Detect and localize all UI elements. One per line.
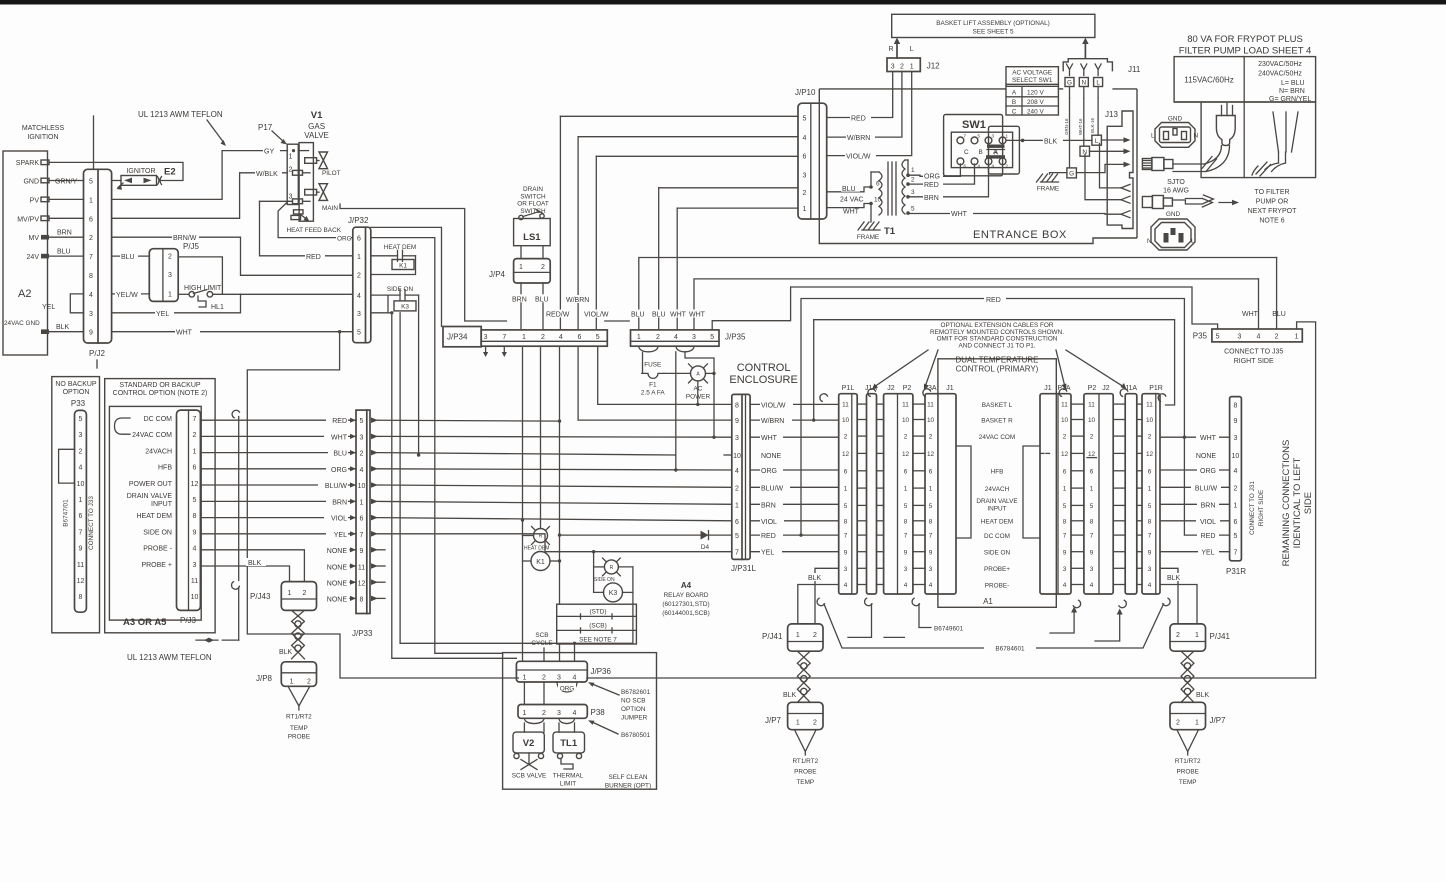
wire VIOL/W: [596, 155, 798, 157]
svg-text:5: 5: [79, 416, 83, 423]
svg-text:L: L: [910, 46, 914, 53]
svg-text:NO SCB: NO SCB: [621, 698, 646, 705]
wire valve pin3 to ORG row (J/P32 pin6): [278, 201, 353, 237]
svg-text:VIOL: VIOL: [1200, 519, 1216, 526]
connector P38: [523, 682, 525, 705]
svg-text:2: 2: [193, 432, 197, 439]
svg-text:INPUT: INPUT: [151, 501, 173, 508]
svg-text:BURNER (OPT): BURNER (OPT): [605, 783, 651, 790]
svg-text:DRAIN VALVE: DRAIN VALVE: [976, 498, 1017, 505]
svg-text:8: 8: [844, 518, 848, 525]
wire labels: [326, 416, 348, 424]
svg-text:1: 1: [910, 64, 914, 71]
svg-text:J1: J1: [1044, 385, 1052, 392]
svg-text:3: 3: [929, 566, 933, 573]
svg-text:8: 8: [89, 273, 93, 280]
svg-text:11: 11: [842, 402, 849, 409]
svg-text:24VAC COM: 24VAC COM: [132, 432, 172, 439]
svg-text:PROBE -: PROBE -: [143, 546, 172, 553]
svg-text:11: 11: [191, 578, 198, 585]
svg-text:8: 8: [929, 518, 933, 525]
wire P/J2 pin6 (MV/PV) to valve pin 2 (W/BLK): [112, 173, 288, 219]
115V plug: [1221, 106, 1223, 116]
svg-text:7: 7: [1090, 533, 1094, 540]
svg-text:5: 5: [360, 418, 364, 425]
svg-text:PROBE: PROBE: [288, 734, 310, 741]
svg-text:8: 8: [904, 518, 908, 525]
svg-text:P1R: P1R: [1149, 385, 1163, 392]
boxed L N G wire tags: [1097, 98, 1099, 135]
svg-text:24VAC COM: 24VAC COM: [979, 434, 1015, 441]
svg-text:24V: 24V: [27, 254, 40, 261]
wires P/J3 to J/P33: [200, 419, 356, 421]
svg-text:YEL: YEL: [156, 311, 169, 318]
svg-text:GAS: GAS: [308, 122, 325, 131]
svg-text:RED: RED: [761, 533, 776, 540]
probe wires to P/J43: [200, 550, 304, 582]
svg-text:8: 8: [193, 513, 197, 520]
wire BRN T1 to SW1: [908, 164, 989, 197]
svg-text:SELF CLEAN: SELF CLEAN: [608, 774, 647, 781]
entrance box outline: [819, 88, 1006, 90]
svg-text:P2: P2: [903, 385, 912, 392]
svg-text:OPTION: OPTION: [621, 706, 646, 713]
wire J/P32 top to J/P34 label box: [371, 227, 442, 326]
svg-text:GRN-16: GRN-16: [1064, 118, 1069, 135]
twisted pair right: [1181, 651, 1194, 702]
row link ticks between connector columns: [857, 403, 866, 405]
svg-text:1: 1: [360, 499, 364, 506]
A2 terminal MV/PV: [41, 216, 49, 221]
AC voltage select table: [1006, 67, 1058, 115]
svg-text:F1: F1: [649, 382, 657, 389]
wire WHT T1 to J13: [908, 213, 1121, 216]
svg-text:2: 2: [307, 679, 311, 686]
svg-text:5: 5: [929, 503, 933, 510]
svg-text:6: 6: [803, 154, 807, 161]
svg-text:LIMIT: LIMIT: [560, 781, 576, 788]
svg-text:GY: GY: [264, 149, 274, 156]
svg-text:YEL: YEL: [761, 550, 774, 557]
svg-text:8: 8: [79, 594, 83, 601]
wire K3 contact down to BLU row: [418, 295, 420, 455]
svg-text:BRN: BRN: [332, 499, 347, 506]
wire W/BRN: [578, 136, 798, 138]
svg-text:TEMP: TEMP: [796, 779, 814, 786]
svg-text:BLU: BLU: [333, 451, 347, 458]
svg-text:WHT: WHT: [843, 209, 860, 216]
svg-text:2: 2: [813, 632, 817, 639]
svg-text:LS1: LS1: [523, 232, 541, 243]
svg-text:BLK: BLK: [1196, 692, 1210, 699]
svg-text:IDENTICAL TO LEFT: IDENTICAL TO LEFT: [1292, 457, 1303, 548]
svg-text:NONE: NONE: [327, 581, 348, 588]
svg-text:1: 1: [1148, 486, 1152, 493]
svg-text:2: 2: [1233, 485, 1237, 492]
ORG jumper loop: [557, 682, 577, 692]
svg-text:5: 5: [357, 330, 361, 337]
svg-text:5: 5: [1233, 533, 1237, 540]
svg-text:9: 9: [904, 549, 908, 556]
svg-text:MATCHLESS: MATCHLESS: [22, 125, 65, 132]
svg-text:BLU: BLU: [842, 186, 856, 193]
svg-text:6: 6: [1148, 468, 1152, 475]
wire PV: [49, 198, 84, 200]
svg-text:WHT: WHT: [689, 312, 706, 319]
svg-text:BLK: BLK: [1167, 575, 1181, 582]
svg-text:B6747/01: B6747/01: [63, 499, 70, 527]
svg-text:3: 3: [1233, 435, 1237, 442]
svg-text:SCB VALVE: SCB VALVE: [512, 773, 547, 780]
svg-text:ENTRANCE BOX: ENTRANCE BOX: [973, 229, 1067, 241]
standard or backup control box: [105, 379, 215, 633]
svg-text:B6780501: B6780501: [621, 732, 651, 739]
svg-text:4: 4: [1257, 334, 1261, 341]
svg-text:UL 1213 AWM TEFLON: UL 1213 AWM TEFLON: [127, 653, 212, 662]
svg-text:RT1/RT2: RT1/RT2: [792, 758, 818, 765]
svg-text:7: 7: [193, 416, 197, 423]
svg-text:4: 4: [904, 582, 908, 589]
connector P33: [75, 410, 87, 612]
svg-text:STANDARD OR BACKUP: STANDARD OR BACKUP: [119, 382, 200, 389]
callout B6780501: [591, 722, 618, 735]
wire VIOL/W J/P34 pin5 to J/P31L pin8: [598, 346, 732, 404]
svg-text:BRN: BRN: [924, 195, 939, 202]
wire BLU into P35 pin2: [1276, 258, 1278, 330]
svg-text:4: 4: [929, 582, 933, 589]
svg-text:240VAC/50Hz: 240VAC/50Hz: [1258, 71, 1302, 78]
svg-text:P/J41: P/J41: [1210, 632, 1231, 641]
svg-text:PROBE: PROBE: [794, 769, 816, 776]
leader arrows right side: [1050, 611, 1074, 633]
svg-text:HEAT DEM: HEAT DEM: [384, 244, 416, 251]
frame ground at SW1 ground: [1050, 173, 1067, 174]
filter pump cable: [1142, 197, 1152, 208]
svg-text:5: 5: [89, 179, 93, 186]
svg-text:9: 9: [1090, 549, 1094, 556]
svg-text:6: 6: [1233, 519, 1237, 526]
svg-text:J/P10: J/P10: [795, 88, 816, 97]
svg-text:HEAT FEED BACK: HEAT FEED BACK: [287, 227, 342, 234]
probe symbol right: [1177, 730, 1199, 752]
svg-text:NEXT FRYPOT: NEXT FRYPOT: [1248, 208, 1297, 215]
svg-text:POWER OUT: POWER OUT: [129, 481, 173, 488]
wires P1L pins 3,4 to P/J41: [815, 568, 839, 624]
self clean burner box: [503, 653, 657, 790]
connector P31R: [1230, 397, 1242, 561]
svg-text:12: 12: [902, 451, 910, 458]
svg-text:REMAINING CONNECTIONS: REMAINING CONNECTIONS: [1281, 440, 1292, 567]
wire W/BRN J/P34 pin6 to J/P31L pin9: [578, 346, 732, 420]
svg-text:HL1: HL1: [211, 304, 224, 311]
coil K1: [531, 552, 550, 571]
svg-text:WHT: WHT: [1200, 435, 1217, 442]
svg-text:2: 2: [541, 334, 545, 341]
thermal limit TL1: [558, 723, 560, 732]
svg-text:BLK: BLK: [279, 649, 293, 656]
svg-text:1: 1: [929, 486, 933, 493]
twisted pair left: [797, 651, 810, 702]
frame ground below T1 primary: [870, 204, 872, 223]
svg-text:WHT: WHT: [670, 312, 687, 319]
transformer T1: [879, 172, 882, 215]
svg-text:PILOT: PILOT: [322, 170, 341, 177]
svg-text:10: 10: [733, 453, 741, 460]
svg-text:5: 5: [710, 334, 714, 341]
svg-text:6: 6: [360, 516, 364, 523]
svg-text:NOTE 6: NOTE 6: [1259, 218, 1284, 225]
connector J/P36: [516, 661, 587, 682]
connector J/P33: [356, 410, 370, 613]
STD/SCB option box: [557, 604, 637, 644]
svg-text:10: 10: [358, 483, 366, 490]
svg-text:N: N: [1081, 80, 1086, 87]
J/P34 ground stub arrows pins 3,7: [485, 346, 487, 353]
svg-text:10: 10: [1232, 453, 1240, 460]
svg-text:6: 6: [1063, 468, 1067, 475]
svg-text:FRAME: FRAME: [857, 234, 879, 241]
wire GND to P/J2 pin5: [49, 180, 84, 182]
svg-text:JUMPER: JUMPER: [621, 715, 648, 722]
svg-text:120 V: 120 V: [1027, 90, 1044, 97]
svg-text:HFB: HFB: [158, 465, 172, 472]
svg-text:D4: D4: [701, 544, 710, 551]
svg-text:BLU: BLU: [535, 296, 549, 303]
svg-text:10: 10: [1088, 417, 1096, 424]
svg-text:115VAC/60Hz: 115VAC/60Hz: [1184, 76, 1234, 85]
svg-text:9: 9: [735, 418, 739, 425]
svg-text:SELECT SW1: SELECT SW1: [1012, 77, 1053, 84]
svg-text:3: 3: [168, 272, 172, 279]
svg-text:2.5 A FA: 2.5 A FA: [641, 390, 666, 397]
svg-text:W/BRN: W/BRN: [761, 418, 784, 425]
svg-text:HEAT DEM: HEAT DEM: [981, 519, 1013, 526]
connector P/J3: [177, 410, 201, 610]
wire P/J2 pin4 (YEL/W) to P/J5 pin 1: [112, 293, 150, 295]
svg-text:B6782601: B6782601: [621, 689, 651, 696]
cable hooks (bottom): [817, 598, 824, 606]
wire ORG T1 to SW1: [908, 164, 960, 176]
svg-text:PUMP OR: PUMP OR: [1256, 199, 1289, 206]
svg-text:J/P33: J/P33: [352, 629, 373, 638]
svg-text:1: 1: [519, 264, 523, 271]
svg-text:2: 2: [1176, 720, 1180, 727]
connector J/P35: [631, 330, 720, 346]
svg-text:7: 7: [79, 529, 83, 536]
svg-text:1: 1: [522, 334, 526, 341]
svg-text:6: 6: [1090, 468, 1094, 475]
wire P/J2 pin3 (YEL) joins high-limit output: [112, 294, 241, 313]
svg-text:7: 7: [735, 550, 739, 557]
svg-text:RED: RED: [1201, 533, 1216, 540]
svg-text:BLU/W: BLU/W: [761, 485, 784, 492]
svg-text:K3: K3: [401, 304, 409, 311]
wire RED T1 to SW1: [908, 164, 975, 184]
svg-text:K1: K1: [399, 262, 407, 269]
svg-text:24VAC GND: 24VAC GND: [4, 320, 40, 327]
svg-text:1: 1: [735, 502, 739, 509]
arrow J11 to basket lift: [1084, 42, 1086, 58]
svg-text:12: 12: [1146, 451, 1154, 458]
svg-text:YEL: YEL: [1201, 550, 1214, 557]
svg-text:5: 5: [803, 116, 807, 123]
svg-text:BLU: BLU: [631, 312, 645, 319]
svg-text:N= BRN: N= BRN: [1279, 88, 1305, 95]
svg-text:ORG: ORG: [924, 173, 940, 180]
DC COM / 24VAC COM jumper: [115, 418, 131, 434]
A1 dual temperature control board: [938, 359, 1056, 608]
svg-text:1: 1: [522, 675, 526, 682]
svg-text:CONTROL: CONTROL: [737, 362, 791, 374]
svg-text:NONE: NONE: [327, 548, 348, 555]
wire WHT into P35 pin4: [1258, 279, 1260, 329]
pilot solenoid: [305, 158, 317, 164]
svg-text:3: 3: [79, 432, 83, 439]
svg-text:3: 3: [1148, 566, 1152, 573]
wire RED long bus: [801, 299, 1230, 536]
svg-text:BLU: BLU: [57, 248, 71, 255]
svg-text:P38: P38: [591, 708, 606, 717]
P1R to P31R rows: [1160, 436, 1230, 438]
wire P/J2 pin7 (BLU) to P/J5 pin 2: [112, 255, 150, 257]
svg-text:SPARK: SPARK: [16, 160, 40, 167]
A2 terminal 24VAC GND: [41, 329, 49, 334]
wire J/P35 pin5 up to long top bus: [712, 287, 790, 330]
svg-text:8: 8: [1063, 518, 1067, 525]
wire J/P32 pin6 down to self clean box: [371, 238, 503, 654]
svg-text:J/P4: J/P4: [489, 270, 506, 279]
main solenoid: [305, 189, 317, 195]
svg-text:9: 9: [89, 330, 93, 337]
wires J/P10 to transformer T1: [827, 187, 870, 192]
svg-text:P31R: P31R: [1226, 567, 1246, 576]
svg-text:4: 4: [844, 582, 848, 589]
svg-text:BLU: BLU: [652, 312, 666, 319]
svg-text:SIDE ON: SIDE ON: [143, 529, 172, 536]
svg-text:4: 4: [357, 293, 361, 300]
svg-text:3: 3: [904, 566, 908, 573]
J/P35 mating loops: [639, 346, 658, 352]
svg-text:1: 1: [288, 590, 292, 597]
svg-text:NONE: NONE: [1196, 453, 1217, 460]
connector P1R: [1142, 394, 1160, 594]
svg-text:A1: A1: [983, 597, 993, 606]
svg-text:1: 1: [89, 197, 93, 204]
svg-text:5: 5: [1216, 334, 1220, 341]
svg-text:8: 8: [1148, 518, 1152, 525]
svg-text:L= BLU: L= BLU: [1281, 80, 1305, 87]
svg-text:CONNECT TO J33: CONNECT TO J33: [88, 496, 95, 550]
connector J/P31L: [732, 394, 750, 559]
svg-text:SIDE: SIDE: [1303, 492, 1314, 514]
svg-text:6: 6: [844, 468, 848, 475]
svg-text:MV/PV: MV/PV: [17, 216, 39, 223]
lamp K3 side on: [604, 560, 618, 574]
svg-text:2: 2: [360, 451, 364, 458]
J13 loop-back wires to lower pins: [1100, 144, 1122, 188]
svg-text:2: 2: [1176, 632, 1180, 639]
svg-text:10: 10: [927, 417, 935, 424]
wire MAIN from valve to J/P34 end: [340, 204, 506, 321]
connector P1L: [839, 394, 858, 594]
svg-text:FRAME: FRAME: [1037, 186, 1059, 193]
svg-text:2: 2: [542, 710, 546, 717]
svg-text:11: 11: [1146, 402, 1153, 409]
svg-text:BASKET R: BASKET R: [981, 418, 1013, 425]
svg-text:P/J2: P/J2: [89, 349, 106, 358]
wire P/J2 pin9 (WHT) to J/P32 pin 5: [112, 331, 353, 333]
svg-text:VIOL/W: VIOL/W: [761, 402, 786, 409]
svg-text:MV: MV: [29, 235, 40, 242]
svg-text:1: 1: [1195, 632, 1199, 639]
svg-text:6: 6: [929, 468, 933, 475]
lamp K1 heat dem: [534, 529, 548, 543]
wire into P/J2 top: [93, 116, 95, 169]
svg-text:9: 9: [1063, 549, 1067, 556]
svg-text:PROBE +: PROBE +: [141, 562, 172, 569]
svg-text:K1: K1: [536, 559, 545, 566]
svg-text:BLU/W: BLU/W: [325, 483, 348, 490]
svg-text:3: 3: [692, 334, 696, 341]
plug cells: [1174, 102, 1316, 178]
svg-text:9: 9: [79, 546, 83, 553]
wires tags to J13: [1101, 139, 1126, 141]
wires J/P10 right to J12: [827, 72, 893, 118]
svg-text:J2: J2: [1102, 385, 1110, 392]
svg-text:IGNITION: IGNITION: [27, 134, 58, 141]
svg-text:3: 3: [360, 434, 364, 441]
svg-text:P/J5: P/J5: [183, 242, 200, 251]
svg-text:J12: J12: [927, 62, 940, 71]
svg-text:12: 12: [358, 581, 366, 588]
svg-text:OR FLOAT: OR FLOAT: [517, 201, 549, 208]
svg-text:CONTROL (PRIMARY): CONTROL (PRIMARY): [956, 365, 1039, 374]
wire BLU J/P35 pin1 to P35 right side: [639, 258, 1277, 330]
svg-text:ORG: ORG: [761, 468, 777, 475]
svg-text:(60144001,SCB): (60144001,SCB): [662, 610, 710, 617]
no backup option box: [52, 377, 100, 633]
svg-text:NONE: NONE: [327, 597, 348, 604]
svg-text:BLK: BLK: [783, 692, 797, 699]
svg-text:2: 2: [541, 264, 545, 271]
svg-text:RED: RED: [332, 418, 347, 425]
svg-text:W/BLK: W/BLK: [256, 171, 278, 178]
svg-text:11: 11: [902, 402, 909, 409]
svg-text:10: 10: [902, 417, 910, 424]
long wire to J/P36 pin4: [400, 642, 633, 644]
svg-text:7: 7: [929, 533, 933, 540]
svg-text:VIOL/W: VIOL/W: [846, 154, 871, 161]
wire WHT J/P35 pin3 to P35 right side: [694, 279, 1259, 330]
svg-text:10: 10: [191, 594, 199, 601]
svg-text:8: 8: [360, 597, 364, 604]
svg-text:VIOL: VIOL: [761, 519, 777, 526]
svg-text:B6749601: B6749601: [934, 626, 964, 633]
svg-text:PROBE+: PROBE+: [984, 566, 1010, 573]
svg-text:RT1/RT2: RT1/RT2: [286, 714, 312, 721]
voltage table: [1174, 57, 1316, 102]
wire BRN J/P34 pin1 down to K1 and J/P36 pin1: [522, 346, 524, 661]
svg-text:3: 3: [735, 435, 739, 442]
svg-text:1: 1: [357, 254, 361, 261]
svg-text:TL1: TL1: [560, 738, 578, 749]
svg-text:P/J3: P/J3: [180, 616, 197, 625]
arrow J12 to basket lift: [896, 42, 898, 58]
svg-text:ORG: ORG: [1200, 468, 1216, 475]
svg-text:1: 1: [79, 497, 83, 504]
svg-text:BASKET L: BASKET L: [982, 402, 1013, 409]
svg-text:1: 1: [289, 153, 293, 160]
